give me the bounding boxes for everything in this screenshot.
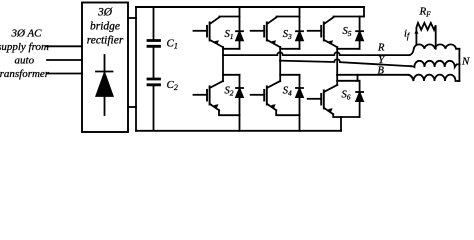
svg-text:RF: RF	[419, 6, 432, 19]
transistor S2 (IGBT)	[194, 94, 208, 96]
wire: leg2 midpoint vertical	[279, 47, 281, 81]
diode D1 (antiparallel)	[239, 7, 241, 49]
diode D3 (antiparallel)	[299, 7, 301, 49]
inductor: B phase winding	[409, 75, 460, 81]
svg-text:S4: S4	[283, 86, 292, 98]
svg-text:S3: S3	[283, 29, 292, 41]
svg-text:C2: C2	[167, 79, 178, 92]
wire: stub B line to S6 cell	[357, 75, 359, 81]
wire: S4 emitter wire	[276, 110, 299, 115]
svg-text:transformer: transformer	[0, 68, 50, 80]
wire: AC input phase 1	[46, 45, 82, 47]
svg-text:B: B	[378, 66, 385, 77]
wire: left DC bus vertical	[135, 7, 137, 131]
wire: phase R line with hops	[223, 52, 410, 55]
inductor: Y phase winding	[411, 61, 460, 67]
wire: DC bottom rail	[136, 130, 341, 132]
wire: AC input phase 3	[47, 73, 82, 75]
wire: leg3 midpoint vertical	[336, 47, 338, 85]
svg-text:if: if	[404, 29, 411, 41]
wire: S5 collector wire	[334, 16, 365, 18]
svg-text:auto: auto	[15, 55, 35, 67]
svg-text:S6: S6	[342, 90, 351, 102]
resistor RF (fault resistance)	[416, 23, 435, 49]
wire: S1 collector wire	[219, 16, 239, 18]
wire: box to DC bus top	[128, 17, 136, 19]
diode D5 (antiparallel)	[359, 17, 361, 49]
svg-text:rectifier: rectifier	[87, 35, 124, 47]
svg-text:3Ø: 3Ø	[97, 7, 113, 19]
wire: DC top rail	[136, 6, 364, 8]
diode D6 (antiparallel)	[359, 81, 361, 117]
wire: leg3 to bottom rail	[340, 117, 342, 131]
wire: box to DC bus bottom	[128, 106, 136, 108]
wire: S3 collector wire	[277, 16, 300, 18]
transistor S1 (IGBT)	[194, 30, 208, 32]
wire: AC input phase 2	[47, 59, 82, 61]
svg-text:S1: S1	[225, 29, 234, 41]
svg-text:N: N	[461, 55, 470, 67]
wire: S2 emitter wire	[219, 110, 240, 115]
svg-text:S2: S2	[225, 86, 234, 98]
svg-text:C1: C1	[167, 37, 178, 50]
wire: capacitor chain vertical	[153, 7, 155, 130]
label: 3Ø bridge rectifier	[87, 7, 124, 47]
wire: phase B line	[337, 74, 409, 76]
inductor: R phase winding	[410, 44, 460, 55]
wire: leg1 midpoint vertical	[222, 47, 224, 81]
capacitor C1	[148, 41, 160, 47]
svg-text:S5: S5	[343, 26, 352, 38]
rectifier box	[82, 3, 128, 133]
label: 3Ø AC supply from auto transformer	[0, 27, 50, 80]
svg-text:3Ø AC: 3Ø AC	[10, 27, 42, 39]
wire: S6 emitter wire	[333, 114, 359, 117]
transistor S5 (IGBT)	[308, 30, 322, 32]
diode D4 (antiparallel)	[299, 75, 301, 131]
wire: S5 emitter wire	[337, 48, 359, 50]
transistor S3 (IGBT)	[251, 30, 265, 32]
diode inside rectifier box	[104, 55, 106, 115]
wire: phase Y line with hop	[280, 59, 411, 66]
svg-text:R: R	[377, 43, 385, 54]
wire: S4 collector wire	[280, 74, 299, 76]
diode D2 (antiparallel)	[239, 75, 241, 131]
wire: S2 collector wire	[223, 74, 240, 76]
svg-text:supply from: supply from	[0, 41, 49, 53]
wire: S3 emitter wire	[280, 48, 299, 50]
capacitor C2	[148, 79, 160, 85]
wire: S1 emitter wire	[223, 48, 240, 50]
transistor S4 (IGBT)	[251, 94, 265, 96]
svg-text:bridge: bridge	[90, 21, 120, 33]
wire: S6 collector wire	[337, 80, 359, 82]
transistor S6 (IGBT)	[308, 98, 322, 100]
wire: neutral vertical	[458, 49, 460, 81]
arrow: fault current direction	[414, 29, 418, 34]
wire: top rail drop leg3	[363, 7, 365, 17]
